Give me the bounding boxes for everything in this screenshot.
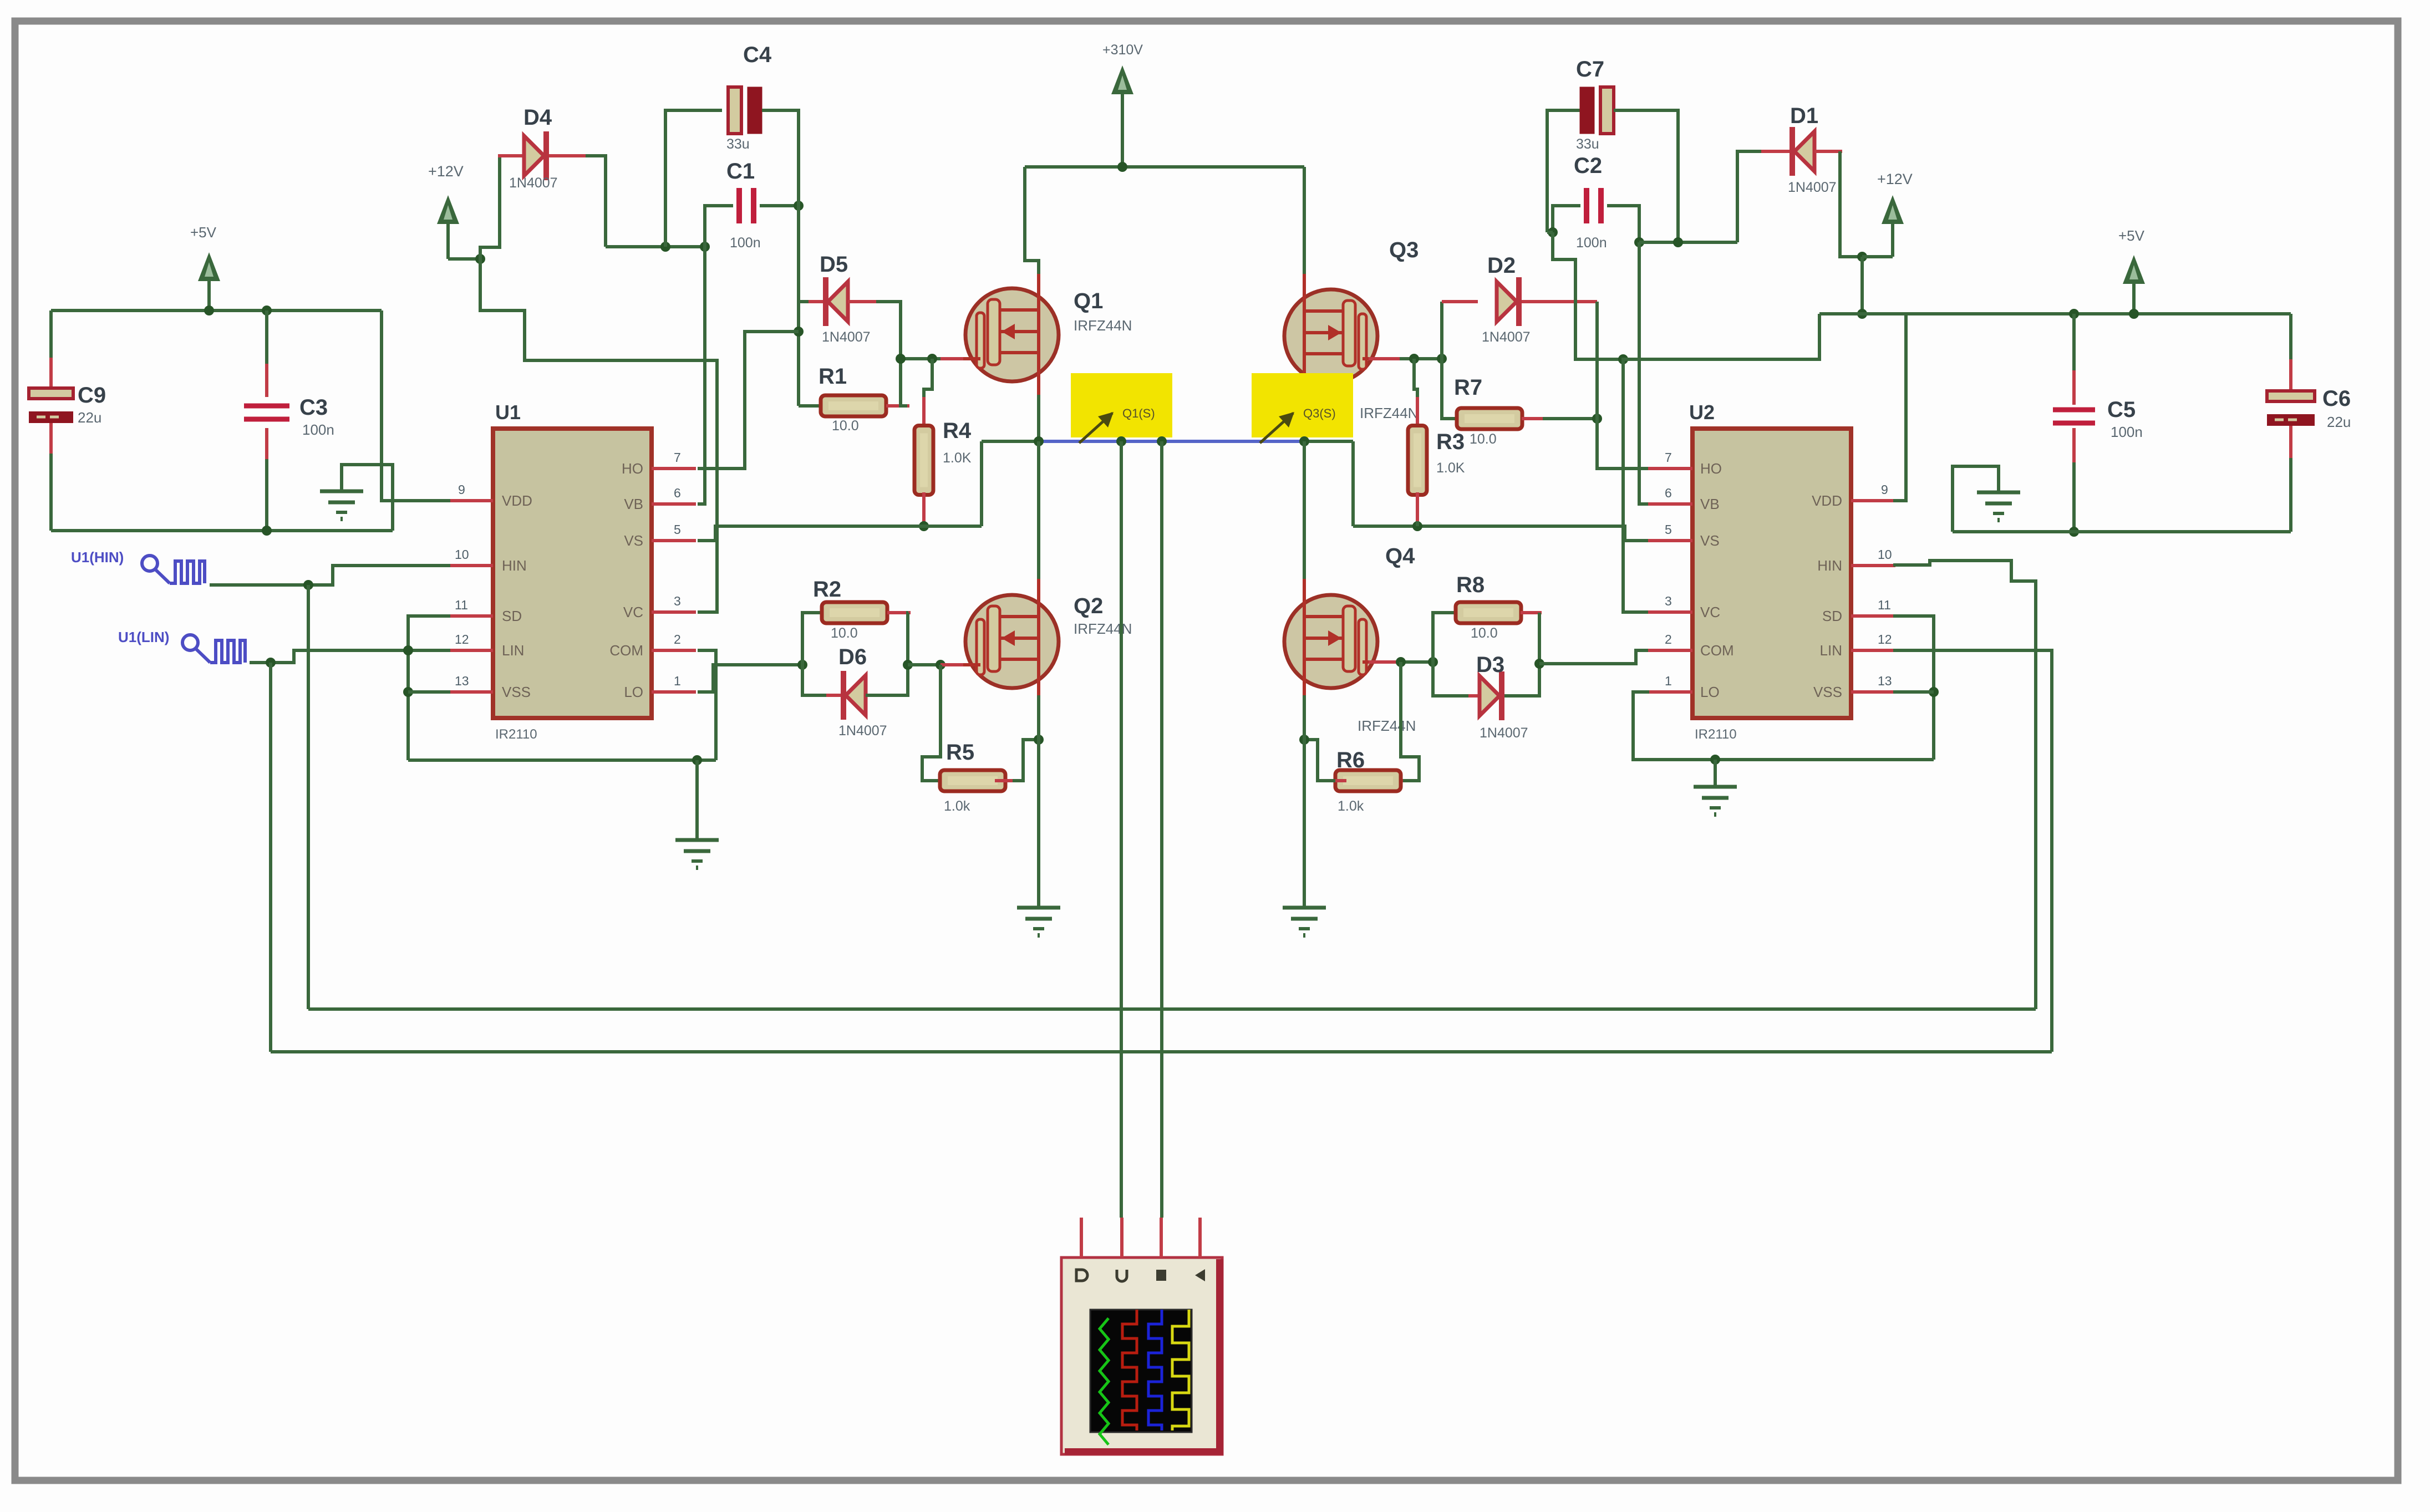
ground right block [1997,487,2000,492]
junction Q1 source [1034,436,1044,446]
junction HO node [794,327,804,337]
junction C4 C1 right [794,201,804,211]
probe highlight Q3(S) [1252,373,1353,437]
wire U2 LIN to feedback [1893,650,2052,1052]
wire C3 bottom stub [265,428,268,461]
svg-text:7: 7 [1665,450,1672,465]
junction U2 ground [1710,755,1720,765]
svg-text:22u: 22u [78,409,101,426]
svg-text:10.0: 10.0 [1470,431,1497,447]
junction R4 bottom [919,521,929,531]
svg-text:LIN: LIN [502,642,524,659]
junction LIN tie [403,645,413,655]
wire R8 left stub [1458,611,1480,614]
wire Q3 source lower [1303,395,1306,441]
wire U2 HIN to feedback [1893,561,2036,1009]
wire U2 VDD riser [1893,314,1906,501]
wire C9 top stub [49,358,53,388]
junction LIN feedback [266,658,276,668]
svg-text:5: 5 [1665,522,1672,537]
wire C6 bottom stub [2289,426,2292,460]
oscilloscope pin 3 [1160,1218,1163,1258]
svg-text:1N4007: 1N4007 [509,175,558,191]
oscilloscope connector 3 [1156,1270,1166,1281]
op-amp U1 IR2110 [493,429,652,718]
svg-text:C5: C5 [2107,398,2136,422]
wire +310V rail [1025,165,1304,169]
power +5V left [207,269,211,310]
svg-text:C7: C7 [1576,57,1604,82]
svg-text:R8: R8 [1456,573,1485,597]
wire U2 SD tie [1893,616,1934,760]
junction +12V left [475,254,485,264]
svg-text:1.0K: 1.0K [943,450,972,466]
wire Q1 drain [1025,167,1039,277]
svg-text:100n: 100n [2111,424,2143,440]
wire C4 right [762,110,799,206]
scope trace green [1100,1318,1109,1445]
wire R8 left [1433,613,1461,662]
pin U1 SD 11 [449,614,493,618]
svg-text:U1: U1 [495,401,521,424]
wire +12V right stem [1862,255,1893,258]
wire R3 bottom stub [1416,492,1419,525]
svg-text:33u: 33u [1576,136,1599,152]
wire D4 cathode stub [549,154,588,157]
svg-text:COM: COM [609,642,643,659]
junction Q4 gate R6 [1396,657,1406,667]
wire R6 left stub [1333,779,1346,782]
wire R8 right stub [1521,611,1542,614]
svg-text:+5V: +5V [190,224,217,241]
diode D4 [524,136,544,176]
junction Q2 source R5 [1034,735,1044,745]
svg-text:R7: R7 [1454,375,1482,400]
oscilloscope pin 1 [1080,1218,1083,1258]
capacitor C3 [244,404,289,409]
resistor R5 [940,770,1005,791]
resistor R3 [1408,426,1427,495]
svg-text:+12V: +12V [428,163,464,180]
pin U1 HO 7 [652,467,696,470]
svg-text:10.0: 10.0 [831,625,858,641]
svg-text:VDD: VDD [1812,492,1842,509]
svg-text:1.0k: 1.0k [944,798,970,814]
wire D6 right [866,665,908,695]
wire VDD from +5V rail [382,310,450,501]
diode D1 [1794,131,1814,171]
junction C3 bottom [262,526,272,536]
wire Q2 source [1037,680,1040,698]
wire C2 right [1607,206,1639,242]
oscilloscope screen [1090,1310,1192,1432]
oscilloscope connector 1 [1076,1270,1087,1281]
wire R3 bottom lead [1416,521,1419,526]
svg-text:10: 10 [455,547,469,562]
junction R2 D6 right [903,660,913,670]
transistor Q2 [965,595,1059,688]
wire Q3 gate line [1400,357,1442,360]
wire Q3 drain [1303,167,1306,277]
wire R3 top [1414,359,1417,400]
junction C3 top [262,306,272,315]
svg-text:VDD: VDD [502,492,532,509]
wire VSS tie [408,690,450,694]
junction C4 left [660,242,670,252]
wire D2 left up [1440,302,1443,359]
wire R4 top stub [922,397,926,428]
wire R5 right stub [995,779,1015,782]
scope trace yellow [1172,1310,1189,1430]
svg-text:1N4007: 1N4007 [838,723,887,739]
pin U2 HIN 10 [1851,564,1895,567]
wire VS left corner [980,441,983,526]
svg-text:C1: C1 [726,159,755,184]
svg-text:+12V: +12V [1877,171,1913,187]
svg-text:11: 11 [1878,598,1891,612]
svg-text:HIN: HIN [502,557,527,574]
pin U1 LO 1 [652,690,696,694]
svg-text:1: 1 [1665,674,1672,688]
svg-text:Q3(S): Q3(S) [1303,406,1336,420]
wire C6 top stub [2289,359,2292,391]
svg-text:3: 3 [1665,594,1672,608]
svg-text:VS: VS [624,532,643,549]
diode D2 [1497,282,1517,322]
junction U2 VSS tie [1929,687,1939,697]
svg-text:COM: COM [1700,642,1734,659]
wire D5 right [848,300,879,303]
svg-text:9: 9 [1881,482,1888,497]
svg-text:R1: R1 [819,364,847,389]
wire D5 right down [876,302,901,359]
wire Q4 drain [1303,441,1306,581]
wire Q2 gate line [908,663,943,666]
diode D3 [1480,676,1499,716]
wire C7 right [1614,110,1678,242]
wire COM down [698,650,716,760]
wire +5V bottom rail left [51,529,393,532]
wire ground step right block [1953,466,1999,532]
junction HIN feedback [303,580,313,590]
wire C9 bottom stub [49,423,53,456]
svg-text:R5: R5 [946,740,974,765]
wire C9 top lead [49,310,53,359]
svg-text:D3: D3 [1476,653,1504,677]
svg-text:6: 6 [1665,486,1672,500]
wire scope channel B [1160,441,1163,1218]
svg-text:1N4007: 1N4007 [1480,725,1528,741]
wire U2 ground stub [1714,760,1717,785]
wire C6 top lead [2289,314,2292,362]
wire HO U2 riser [1597,302,1650,469]
oscilloscope connector 4 [1195,1269,1205,1281]
svg-text:R2: R2 [813,577,841,602]
wire D3 right [1504,664,1539,696]
wire VS rail to U1 [698,526,982,541]
transistor Q3 [1284,289,1377,383]
wire Q1 source lower [1037,395,1040,441]
wire Q4 source to ground [1303,695,1306,906]
svg-text:SD: SD [1822,608,1842,624]
svg-text:R4: R4 [943,419,972,443]
junction scope A [1116,436,1126,446]
wire R3 top stub [1416,397,1419,428]
svg-text:Q2: Q2 [1074,594,1103,618]
resistor R8 [1456,602,1521,623]
wire R6 drop [1400,662,1419,781]
svg-text:10.0: 10.0 [832,418,859,434]
wire C3 top stub [265,364,268,397]
wire feedback line lower [271,1050,2052,1053]
wire U1 bottom return [408,758,716,762]
pin U1 VDD 9 [449,499,493,502]
wire Q3 source [1303,369,1306,397]
wire +12V to junction [448,257,480,261]
wire D1 cathode stub [1761,150,1792,153]
pin U2 VB 6 [1648,502,1692,506]
svg-text:HO: HO [1700,460,1722,477]
pin U2 VSS 13 [1851,690,1895,694]
wire R2 right [908,613,908,665]
ground left block [340,486,343,491]
wire C2 left [1553,206,1580,232]
svg-text:1: 1 [674,674,681,688]
wire R5 right up [1013,740,1039,781]
junction Q2 gate R5 [936,660,945,670]
transistor Q4 [1284,595,1377,688]
wire R1 right stub [886,404,909,408]
svg-text:C6: C6 [2322,386,2351,411]
wire feedback line upper [308,1007,2036,1011]
wire C7 left [1547,110,1583,232]
wire R7 left stub [1466,417,1486,420]
oscilloscope connector 2 [1117,1270,1127,1281]
junction D2 R7 right [1592,414,1602,424]
svg-text:1.0K: 1.0K [1436,460,1465,476]
svg-text:IRFZ44N: IRFZ44N [1358,717,1416,734]
svg-text:VS: VS [1700,532,1720,549]
capacitor C1 [736,188,742,223]
wire R2 left stub [827,611,848,614]
capacitor C5 [2053,408,2095,413]
junction +5V right arrow [2129,309,2139,319]
svg-text:D4: D4 [523,105,552,130]
wire C6 bottom lead [2289,458,2292,532]
wire COM U2 wire [1539,650,1649,664]
probe highlight Q1(S) [1071,373,1172,437]
wire C9 bottom lead [49,454,53,531]
junction R2 D6 left [797,660,807,670]
ground Q2 source [1038,902,1040,908]
wire +12V right to VC [1623,314,1819,612]
wire D3 anode stub [1468,694,1480,698]
wire C4 left [665,110,722,247]
wire VS rail left [982,440,1039,443]
svg-text:3: 3 [674,594,681,608]
wire HIN feedback drop [307,585,310,1009]
svg-text:IRFZ44N: IRFZ44N [1074,317,1132,334]
wire D2 anode stub [1442,300,1478,303]
wire D6 cathode stub [826,694,843,697]
svg-text:SD: SD [502,608,522,624]
wire C1 left [705,206,733,247]
svg-text:100n: 100n [1576,235,1607,251]
wire R2 left [802,613,830,665]
power +5V right [2132,272,2136,314]
pin U2 COM 2 [1648,649,1692,652]
wire Q2 source to ground [1037,695,1040,906]
svg-text:1N4007: 1N4007 [1482,329,1531,345]
wire D1 anode stub [1814,150,1842,153]
pin U1 VSS 13 [449,690,493,694]
svg-text:IR2110: IR2110 [1695,727,1737,742]
svg-text:12: 12 [1878,632,1892,646]
wire VB U2 riser [1639,242,1650,504]
svg-text:IRFZ44N: IRFZ44N [1360,405,1418,421]
svg-text:C2: C2 [1574,154,1602,178]
junction VSS tie [403,687,413,697]
wire D6 left [802,665,828,695]
junction Q4 source R6 [1299,735,1309,745]
junction +310V [1117,162,1127,172]
ground U2 COM [1714,781,1717,787]
ground U1 COM [696,834,699,840]
wire R1 right up [901,359,907,406]
wire LO to gate network [698,665,802,692]
svg-text:U2: U2 [1689,401,1715,424]
svg-text:HO: HO [622,460,643,477]
wire VS rail right [1304,440,1353,443]
wire VB U2 node horizontal [1639,241,1737,244]
wire +12V right drop [1860,257,1864,314]
svg-text:Q3: Q3 [1389,238,1419,262]
svg-text:R3: R3 [1436,430,1465,454]
wire C3 bottom lead [265,459,268,531]
capacitor C9 [29,388,73,399]
svg-text:+310V: +310V [1102,42,1143,58]
wire ground step left block [342,465,393,531]
wire R4 bottom lead [922,521,926,526]
svg-text:VB: VB [1700,496,1720,512]
wire +5V bottom rail right [1953,530,2291,533]
resistor R6 [1335,770,1401,791]
svg-text:VSS: VSS [1813,684,1842,700]
wire R8 right [1538,613,1541,664]
wire Q4 gate stub [1369,660,1402,664]
junction gate Q3 b [1437,354,1447,364]
svg-text:D6: D6 [838,645,867,669]
svg-text:13: 13 [1878,674,1892,688]
wire +12V down to VC [480,259,717,612]
wire R1 left stub [827,404,848,408]
resistor R2 [822,602,887,623]
svg-text:13: 13 [455,674,469,688]
wire LIN from source [250,650,450,663]
scope trace blue [1148,1310,1162,1430]
junction scope B [1157,436,1167,446]
wire C5 top stub [2072,370,2076,405]
wire +5V top rail right [1819,312,2291,315]
probe Q1(S) [1079,413,1112,443]
junction C2 C7 left [1548,227,1558,237]
svg-text:2: 2 [1665,632,1672,646]
capacitor C2 [1584,188,1589,223]
wire VS right corner [1351,441,1355,526]
power +12V left [446,212,450,259]
wire R2 right stub [887,611,911,614]
junction +5V arrow [204,306,214,315]
wire D4 cathode to node [586,156,606,247]
junction R3 bottom [1412,521,1422,531]
svg-text:LO: LO [624,684,643,700]
wire Q4 drain stub [1303,579,1306,607]
pin U1 VB 6 [652,502,696,506]
junction gate Q3 a [1409,354,1419,364]
wire D5 cathode stub [809,300,826,303]
wire Q4 gate line [1400,660,1433,664]
svg-text:D5: D5 [820,252,848,277]
generator U1(LIN) [182,635,198,650]
junction +12V right [1857,252,1867,262]
wire VS rail to U2 [1353,526,1691,541]
wire R1 left [799,404,830,408]
wire Q2 drain stub [1037,579,1040,607]
svg-text:1N4007: 1N4007 [822,329,871,345]
wire D1 anode down [1840,151,1862,257]
wire U2 bottom return [1633,692,1934,760]
wire C1 right [760,204,799,207]
transistor Q1 [965,288,1059,381]
pin U1 VC 3 [652,610,696,614]
wire R5 drop [922,665,943,781]
power +12V right [1891,212,1894,257]
wire C3 top lead [265,310,268,366]
resistor R1 [821,395,886,416]
svg-text:Q1(S): Q1(S) [1122,406,1155,420]
pin U1 VS 5 [652,539,696,542]
wire R5 left stub [939,779,950,782]
capacitor C6 [2267,391,2315,401]
svg-text:9: 9 [458,482,465,497]
pin U1 COM 2 [652,649,696,652]
svg-text:IRFZ44N: IRFZ44N [1074,620,1132,637]
svg-text:IR2110: IR2110 [495,727,537,742]
svg-text:100n: 100n [730,235,761,251]
wire C5 bottom stub [2072,428,2076,465]
svg-text:11: 11 [455,598,468,612]
svg-text:LIN: LIN [1820,642,1842,659]
wire Q2 drain [1037,441,1040,581]
svg-text:22u: 22u [2327,414,2351,430]
diode D5 [828,282,848,322]
pin U1 LIN 12 [449,649,493,652]
wire C5 bottom lead [2072,462,2076,532]
svg-text:Q4: Q4 [1385,544,1415,568]
wire D2 right [1522,300,1597,303]
wire C5 top lead [2072,314,2076,373]
svg-text:HIN: HIN [1817,557,1842,574]
wire R7 right [1543,417,1597,420]
generator U1(HIN) [142,556,157,571]
wire C2 bottom link [1553,232,1623,359]
svg-text:6: 6 [674,486,681,500]
svg-text:1N4007: 1N4007 [1788,180,1837,195]
wire R6 left up [1304,740,1335,781]
wire Q3 drain stub [1303,274,1306,301]
wire R6 right stub [1392,779,1403,782]
svg-text:VC: VC [1700,604,1720,620]
